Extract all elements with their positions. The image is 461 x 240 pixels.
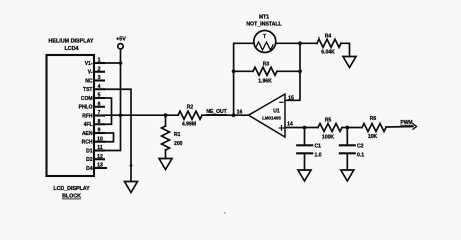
node junction NE_OUT/feedback (232, 113, 236, 117)
svg-text:9: 9 (98, 128, 101, 134)
speck (318, 37, 320, 39)
svg-text:V1-: V1- (85, 61, 93, 67)
speck (224, 212, 225, 213)
block bottom label LCD_DISPLAY BLOCK (53, 186, 90, 200)
capacitor C2 0.1 (346, 128, 348, 145)
svg-text:12: 12 (97, 154, 103, 160)
ground below C2 (341, 170, 354, 181)
wire pin 1 to +5V bus (104, 62, 121, 64)
svg-text:TST: TST (83, 87, 92, 93)
svg-text:100K: 100K (322, 135, 334, 141)
svg-text:C1: C1 (315, 144, 322, 150)
svg-text:R1: R1 (174, 132, 181, 138)
ground below C1 (298, 170, 311, 181)
svg-text:7: 7 (98, 110, 101, 116)
pin numbers 1-13 (97, 58, 103, 169)
svg-text:1.0: 1.0 (315, 153, 322, 159)
resistor R6 10K (362, 124, 386, 132)
svg-text:4.99M: 4.99M (182, 122, 196, 128)
svg-text:C2: C2 (357, 144, 364, 150)
op-amp plus input mark (281, 126, 283, 131)
capacitor C1 1.0 (304, 128, 306, 145)
svg-text:5: 5 (98, 93, 101, 99)
wire left feedback riser (234, 43, 254, 115)
resistor R4 6.04K (300, 42, 317, 44)
svg-text:LCD_DISPLAY: LCD_DISPLAY (53, 186, 90, 192)
op-amp U1 LM01405 (249, 94, 286, 137)
wire op-amp pin 14 to output rail (285, 127, 318, 129)
svg-text:BLOCK: BLOCK (62, 194, 81, 200)
svg-text:R3: R3 (263, 62, 270, 68)
svg-text:COM: COM (81, 96, 93, 102)
node junction MT1/R4/pin15 riser (298, 41, 302, 45)
svg-text:6.04K: 6.04K (321, 50, 335, 56)
node junction C1 (303, 126, 307, 130)
LCD display block body (47, 55, 95, 176)
svg-text:NE_OUT: NE_OUT (206, 109, 226, 115)
svg-text:1.96K: 1.96K (258, 79, 272, 85)
svg-text:RFH: RFH (82, 113, 93, 119)
svg-text:2: 2 (98, 66, 101, 72)
node junction pin1/+5V (119, 61, 123, 65)
resistor R5 100K (318, 124, 342, 132)
node junction pin7/+5V (119, 113, 123, 117)
svg-text:PHLO: PHLO (79, 105, 93, 111)
thermistor MT1 NOT_INSTALL (254, 31, 276, 53)
svg-text:NC: NC (85, 78, 93, 84)
svg-text:4FL: 4FL (84, 122, 93, 128)
svg-text:V-: V- (88, 70, 93, 76)
svg-text:NOT_INSTALL: NOT_INSTALL (246, 22, 282, 28)
resistor R3 1.96K (232, 69, 236, 73)
resistor R1 200 (165, 115, 167, 126)
svg-text:10K: 10K (368, 134, 378, 140)
wire +5V bus down to pin 11 (104, 49, 121, 151)
ground below R1 (159, 159, 172, 170)
wire op-amp pin 15 up to feedback (285, 43, 300, 100)
svg-text:D2: D2 (86, 157, 93, 163)
svg-text:U1: U1 (273, 108, 280, 114)
pin stubs 1-13 (94, 63, 106, 168)
svg-text:16: 16 (237, 110, 243, 116)
node junction C2 (345, 126, 349, 130)
svg-text:11: 11 (97, 145, 103, 151)
svg-text:T: T (263, 34, 266, 40)
ground below LCD block (125, 182, 138, 193)
svg-text:1: 1 (98, 58, 101, 64)
svg-text:4: 4 (98, 84, 101, 90)
svg-text:LM01405: LM01405 (262, 115, 281, 120)
svg-text:R4: R4 (325, 34, 332, 40)
wire MT1 right to node (276, 42, 300, 44)
svg-text:R2: R2 (187, 105, 194, 111)
svg-text:13: 13 (97, 163, 103, 169)
wire pin 4 to ground bus (104, 89, 131, 181)
svg-text:0.1: 0.1 (357, 153, 364, 159)
wire pin 7 long rail to R1/R2 node (104, 114, 178, 116)
pin name labels inside block (79, 61, 93, 172)
svg-text:PWM: PWM (400, 120, 412, 126)
svg-text:R6: R6 (370, 116, 377, 122)
svg-text:D4: D4 (86, 166, 93, 172)
svg-text:3: 3 (98, 75, 101, 81)
svg-text:+5V: +5V (116, 37, 126, 43)
speck (334, 38, 335, 39)
svg-text:14: 14 (287, 121, 293, 127)
svg-text:6: 6 (98, 101, 101, 107)
+5V power symbol (116, 37, 126, 43)
svg-text:10: 10 (97, 136, 103, 142)
wire pin 9 to pin 10 U-loop (104, 133, 114, 142)
svg-text:HELIUM DISPLAY: HELIUM DISPLAY (48, 39, 93, 45)
svg-text:LCD4: LCD4 (64, 46, 78, 52)
node blob on ground bus (130, 164, 133, 167)
node junction R1/R2 (164, 113, 168, 117)
svg-text:15: 15 (288, 95, 294, 101)
wire NE_OUT to op-amp pin 16 (234, 114, 249, 116)
resistor R2 4.99M (178, 111, 202, 119)
svg-text:AEN: AEN (82, 131, 93, 137)
ground below R4 (343, 57, 356, 68)
svg-text:8: 8 (98, 119, 101, 125)
wire pin 5 to pin 8 U-loop (104, 98, 112, 124)
svg-text:MT1: MT1 (259, 15, 269, 21)
svg-text:R5: R5 (325, 118, 332, 124)
svg-text:RCH: RCH (82, 140, 93, 146)
node PWM output port (400, 120, 412, 126)
node NE_OUT label (206, 109, 226, 115)
block title HELIUM DISPLAY LCD4 (48, 39, 93, 52)
svg-text:200: 200 (174, 141, 183, 147)
svg-text:D1: D1 (86, 148, 93, 154)
op-amp minus input mark (280, 101, 283, 103)
